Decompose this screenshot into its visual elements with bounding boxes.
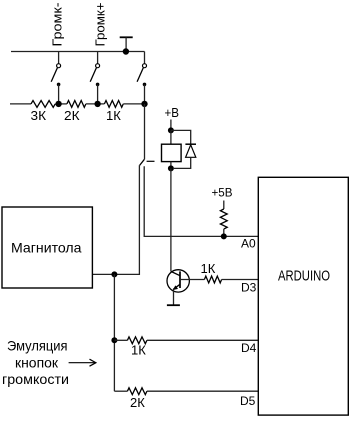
node relay coil bottom xyxy=(168,165,174,171)
svg-text:1К: 1К xyxy=(131,343,146,358)
node magnitola wire junction xyxy=(111,271,117,277)
svg-text:громкости: громкости xyxy=(2,371,69,387)
wire base lead xyxy=(180,279,204,281)
node 1К D4 junction xyxy=(111,337,117,343)
wire down to D4/D5 resistors xyxy=(113,274,115,391)
wire xyxy=(86,103,105,105)
svg-text:2К: 2К xyxy=(64,108,80,123)
wire xyxy=(114,390,127,392)
wire xyxy=(55,103,67,105)
relay contact K1.1 (switch) xyxy=(140,104,155,165)
resistor pull-up to +5В xyxy=(220,201,227,237)
node A0 junction xyxy=(221,233,227,239)
node junction SW3/bus xyxy=(141,101,147,107)
svg-text:A0: A0 xyxy=(241,236,256,250)
diode VD1 (flyback) xyxy=(171,130,196,168)
svg-text:D4: D4 xyxy=(241,341,257,355)
wire resistor bus left xyxy=(10,103,31,105)
wire contact output to A0 xyxy=(144,166,258,236)
arrow annotation xyxy=(69,359,96,366)
wire emitter to ground xyxy=(173,289,175,305)
wire coil to collector xyxy=(170,168,172,271)
box ARDUINO xyxy=(258,177,348,415)
resistor R 2К xyxy=(67,101,86,108)
svg-text:+В: +В xyxy=(165,105,180,120)
wire +B feed xyxy=(170,120,172,131)
wire to D5 xyxy=(147,390,258,392)
svg-text:Магнитола: Магнитола xyxy=(11,240,82,256)
node relay coil top xyxy=(168,127,174,133)
svg-text:+5В: +5В xyxy=(212,186,233,200)
resistor R base 1K xyxy=(204,276,221,283)
wire to D3 xyxy=(222,279,259,281)
svg-text:кнопок: кнопок xyxy=(15,355,59,371)
svg-text:1К: 1К xyxy=(201,261,216,276)
label Эмуляция кнопок громкости xyxy=(2,338,69,388)
wire top bus (to volume buttons) xyxy=(11,51,145,53)
wire xyxy=(123,103,144,105)
resistor R 2К (D5) xyxy=(127,388,146,395)
box Магнитола xyxy=(2,207,92,288)
ground (emitter) xyxy=(167,304,180,306)
wire to D4 xyxy=(147,339,258,341)
relay coil K1 xyxy=(162,144,182,161)
switch SW3 xyxy=(137,52,146,104)
resistor R 1К (D4) xyxy=(127,337,146,344)
resistor R 1К xyxy=(104,101,123,108)
resistor R 3К xyxy=(31,101,55,108)
switch SW1 Громк- xyxy=(51,52,60,104)
wire xyxy=(114,339,127,341)
svg-text:Эмуляция: Эмуляция xyxy=(7,338,68,354)
svg-text:D3: D3 xyxy=(241,281,257,295)
switch SW2 Громк+ xyxy=(90,52,99,104)
node: top bus / ground junction xyxy=(123,48,129,54)
ground (top, chassis bar) xyxy=(120,37,133,51)
svg-text:Громк-: Громк- xyxy=(51,3,65,47)
svg-text:3К: 3К xyxy=(31,108,47,123)
svg-text:2К: 2К xyxy=(130,395,145,410)
svg-text:1К: 1К xyxy=(106,108,121,123)
svg-text:D5: D5 xyxy=(240,394,256,408)
transistor Q1 (NPN) xyxy=(167,270,189,292)
svg-text:ARDUINO: ARDUINO xyxy=(278,268,330,285)
node junction SW2/bus xyxy=(94,101,100,107)
svg-text:Громк+: Громк+ xyxy=(93,3,107,47)
node junction SW1/bus xyxy=(55,101,61,107)
wire contact output to magnitola node xyxy=(92,165,139,274)
wire coil top xyxy=(170,130,172,144)
wire coil bottom xyxy=(170,162,172,169)
